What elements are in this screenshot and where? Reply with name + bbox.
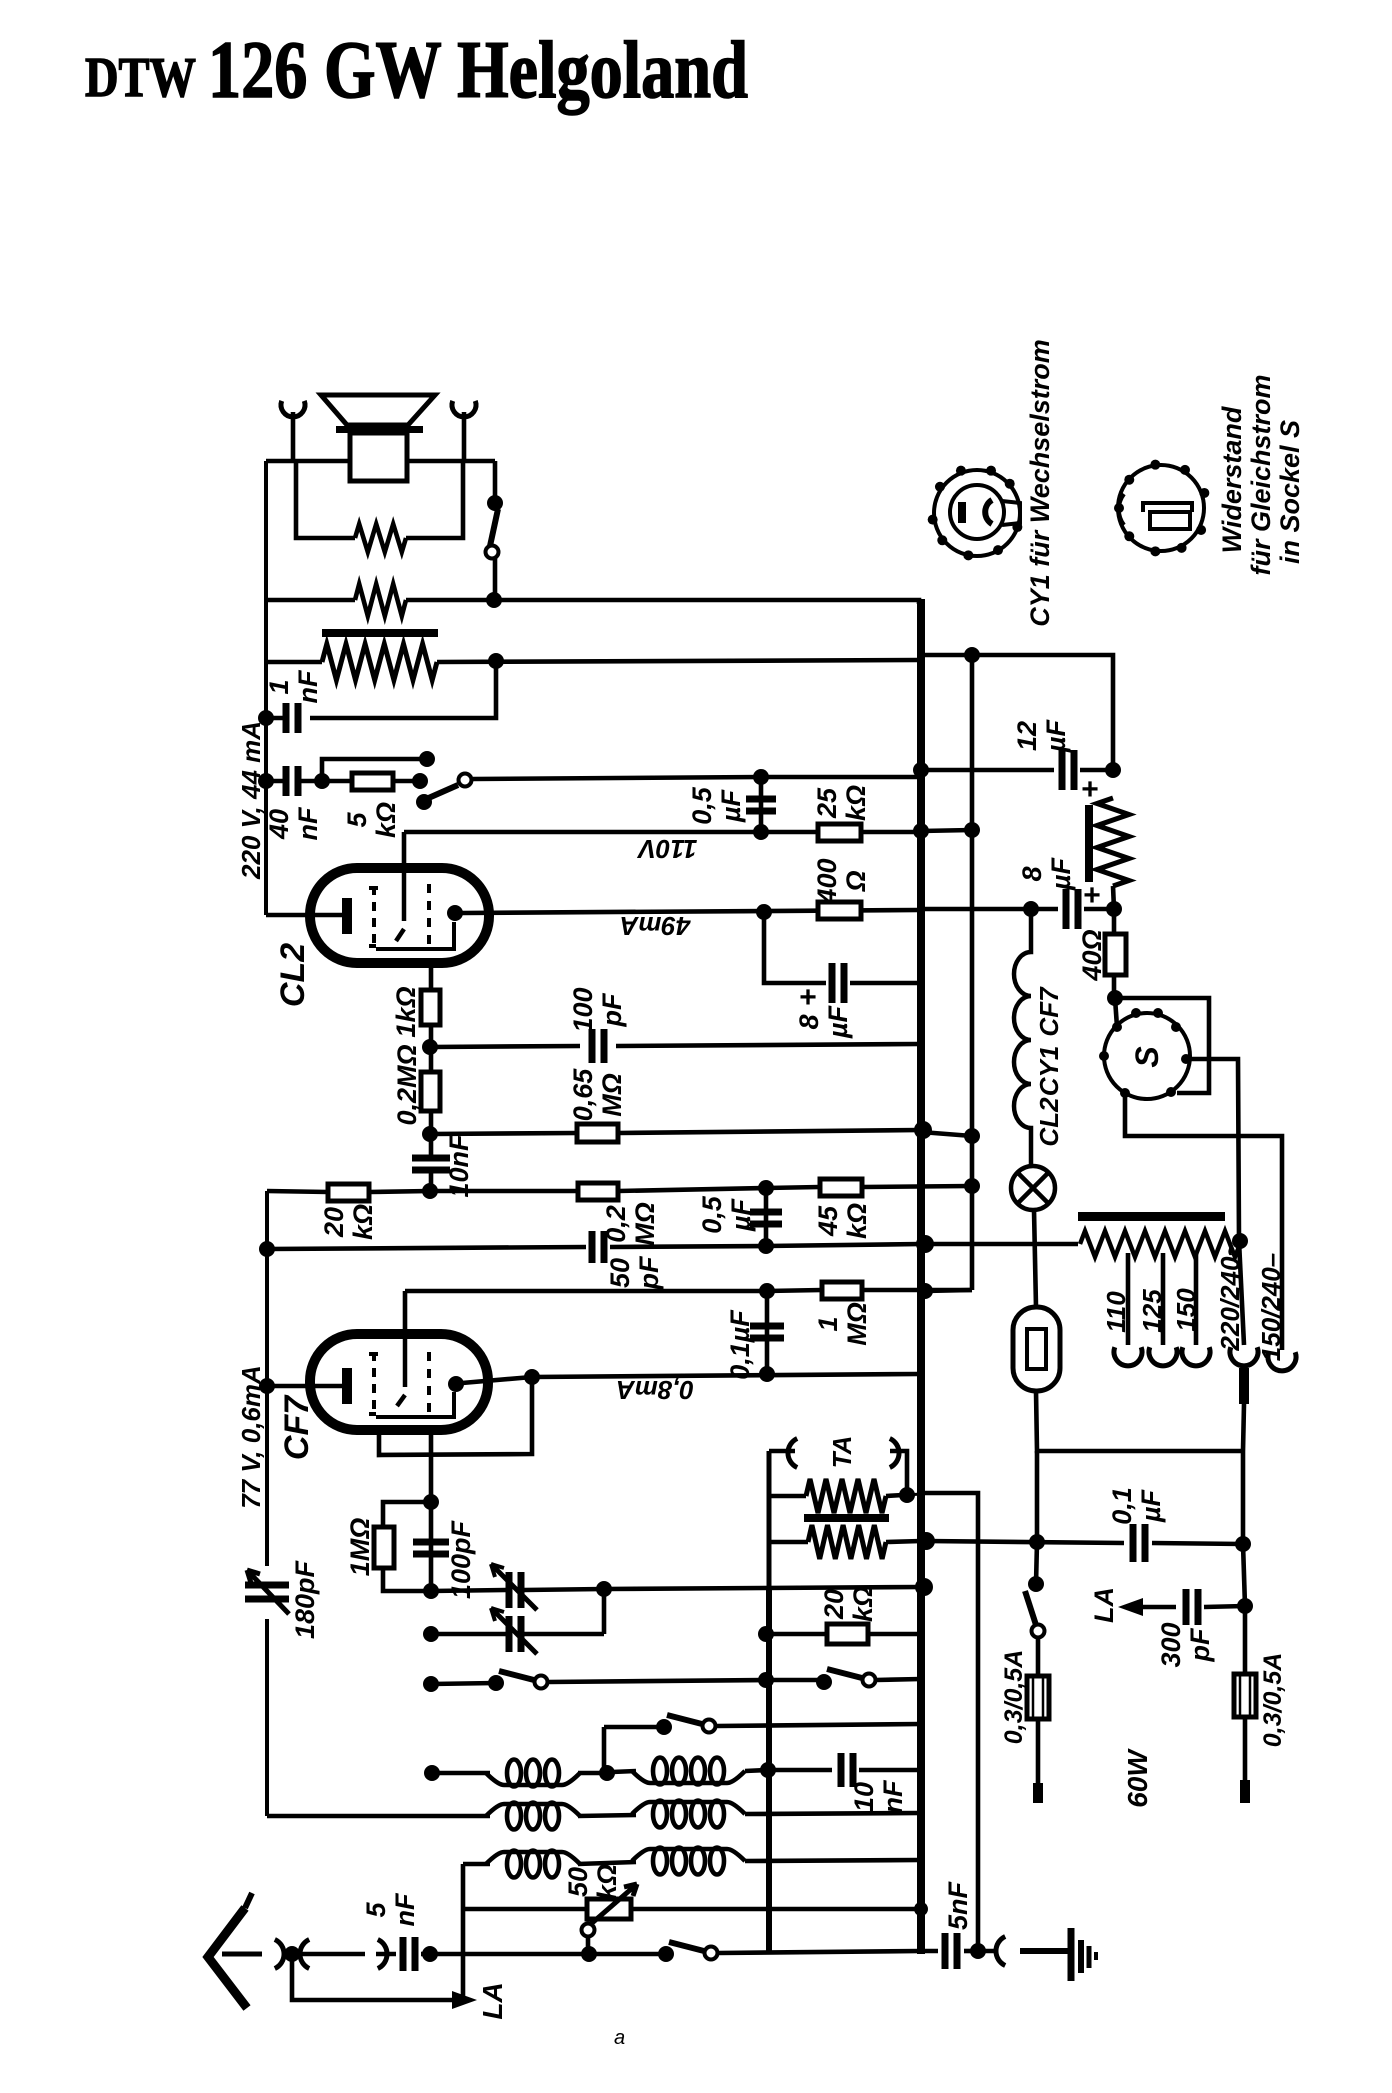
terminal antenna arc 2	[378, 1940, 387, 1969]
resistor 1 MΩ oscillator	[374, 1527, 394, 1568]
capacitor 5 nF antenna	[403, 1937, 415, 1971]
iron core mains dropper	[1078, 1212, 1225, 1221]
wire fuse chain mid	[1035, 1451, 1040, 1542]
capacitor 300 pF LA	[1186, 1589, 1198, 1625]
svg-text:in Sockel S: in Sockel S	[1275, 420, 1305, 564]
wire AF line right a	[926, 1541, 1124, 1543]
resistor 40 Ω	[1105, 934, 1126, 975]
inductor output transformer primary	[322, 644, 437, 680]
junction contact upper	[419, 751, 435, 767]
wire left rail upper (speaker loop left / CL2 grid feed)	[264, 461, 268, 915]
svg-text:DTW: DTW	[85, 47, 196, 109]
capacitor trimmer padding 2	[509, 1616, 521, 1652]
wire 12uF line left	[921, 768, 1054, 773]
capacitor 0,5 µF coupling	[746, 799, 776, 811]
label 5 nF earth	[943, 1880, 973, 1930]
svg-text:+: +	[1083, 879, 1101, 912]
wire coil line 2 from left rail	[267, 1814, 490, 1819]
wire TA top right	[890, 1451, 907, 1493]
junction trimmer vertical	[596, 1581, 612, 1597]
wire fuse chain to switch	[1036, 1542, 1037, 1584]
wire right vertical a	[1241, 1451, 1246, 1544]
svg-text:1kΩ: 1kΩ	[391, 986, 421, 1037]
svg-text:10nF: 10nF	[444, 1133, 474, 1198]
svg-text:µF: µF	[823, 1004, 853, 1039]
capacitor 8 µF cathode CL2 line	[832, 963, 844, 1003]
terminal stub mains right	[1240, 1780, 1250, 1803]
svg-text:77 V, 0,6mA: 77 V, 0,6mA	[236, 1365, 266, 1509]
wire TA zig1 right	[886, 1495, 903, 1496]
svg-text:0,3/0,5A: 0,3/0,5A	[1000, 1650, 1028, 1745]
wire 8uF psu line mid	[1022, 907, 1058, 912]
terminal 150/240	[1268, 1352, 1296, 1371]
junction rail AF line	[917, 1532, 935, 1550]
svg-text:+: +	[1081, 773, 1099, 806]
wire 8uF psu right	[1084, 907, 1114, 912]
switch contact output muting	[486, 546, 499, 559]
label 60W	[1122, 1748, 1153, 1808]
svg-text:45: 45	[813, 1205, 843, 1237]
wire S outer loop	[1115, 998, 1209, 1093]
tube CL2 cathode bar	[342, 898, 352, 934]
wire node to 0.2M horizontal	[430, 1189, 578, 1194]
switch contact tone selector	[459, 774, 472, 787]
svg-text:µF: µF	[1046, 856, 1076, 891]
resistor 0,2 MΩ coupling	[578, 1183, 618, 1200]
junction aux 0.65M ext	[964, 1128, 980, 1144]
svg-text:nF: nF	[293, 806, 323, 840]
svg-text:MΩ: MΩ	[630, 1202, 660, 1246]
svg-text:kΩ: kΩ	[842, 1203, 872, 1239]
wire dropper to 220 terminal	[1239, 1241, 1244, 1345]
junction bus bottom	[422, 1946, 438, 1962]
loudspeaker LS magnet body	[350, 433, 407, 481]
wire 100pF line to rail	[616, 1044, 919, 1046]
wire 0.65M extension	[921, 1132, 972, 1136]
wire lamp to fuse oval	[1034, 1210, 1036, 1307]
wire 300pF to vertical	[1204, 1606, 1245, 1607]
svg-text:Widerstand: Widerstand	[1217, 406, 1247, 553]
label CY1 fuer Wechselstrom	[1025, 339, 1055, 627]
junction right vertical AF	[1235, 1536, 1251, 1552]
wire bus 0.5uF section	[764, 1188, 769, 1246]
wire to 10nF	[429, 1134, 434, 1156]
wire coil1 lead	[432, 1771, 490, 1776]
wire rail to 5nF2	[921, 1949, 938, 1954]
ground symbol	[1068, 1928, 1075, 1981]
wire primary left lead	[266, 660, 322, 665]
svg-text:180pF: 180pF	[290, 1559, 320, 1639]
label 100 pF upper	[568, 987, 627, 1032]
svg-text:5: 5	[361, 1902, 391, 1918]
wire speaker loop bottom left	[266, 598, 355, 603]
svg-text:150: 150	[1171, 1288, 1201, 1332]
wire fuse right to stub	[1243, 1717, 1248, 1780]
svg-text:400: 400	[812, 858, 842, 904]
label 0,5 µF lower	[697, 1195, 756, 1234]
label 0,2MΩ vertical	[392, 1044, 422, 1125]
wire 40nF to node	[300, 779, 322, 784]
svg-text:125: 125	[1137, 1289, 1167, 1333]
svg-text:126 GW Helgoland: 126 GW Helgoland	[208, 24, 748, 115]
label 0,65 MΩ	[568, 1068, 627, 1122]
label 125	[1137, 1289, 1167, 1333]
wire 40ohm to S node	[1112, 975, 1117, 998]
wire to 40ohm	[1112, 909, 1117, 934]
loudspeaker LS cone	[321, 395, 435, 425]
junction osc switch pivot	[656, 1719, 672, 1735]
label 400 Ω	[812, 858, 871, 904]
svg-text:12: 12	[1012, 721, 1042, 751]
svg-text:LA: LA	[1089, 1587, 1119, 1623]
resistor speaker shunt	[355, 524, 406, 552]
junction 40nF / 5k	[314, 773, 330, 789]
terminal 220/240	[1230, 1347, 1258, 1366]
inductor L2 oscillator	[632, 1771, 745, 1783]
terminal tap	[1182, 1347, 1210, 1366]
junction fuse chain AF	[1029, 1534, 1045, 1550]
wire 40nF left	[266, 779, 284, 784]
wire between coils 1	[578, 1771, 602, 1776]
wire 50pF line left	[267, 1247, 586, 1249]
label plus 12uF	[1081, 773, 1099, 806]
svg-text:nF: nF	[878, 1779, 908, 1813]
label 10 nF padder	[849, 1779, 908, 1813]
wire bottom line a	[430, 1952, 589, 1957]
svg-text:0,5: 0,5	[697, 1195, 727, 1234]
svg-text:kΩ: kΩ	[848, 1586, 878, 1622]
wire antenna lead	[222, 1952, 262, 1957]
label TA	[827, 1436, 857, 1469]
svg-text:0,3/0,5A: 0,3/0,5A	[1259, 1653, 1287, 1748]
junction aux 110V ext	[964, 822, 980, 838]
wire S to 150V terminal	[1125, 1093, 1282, 1350]
wire cathode 100pF section	[429, 1502, 434, 1591]
wire 10nF to rail	[859, 1768, 921, 1773]
wire upper bypass to contact	[322, 759, 427, 781]
wire pot line left	[463, 1907, 587, 1912]
wire 20k2 left	[766, 1632, 827, 1637]
tube CL2 envelope	[310, 868, 489, 963]
wire to 5nF	[376, 1952, 396, 1957]
junction switch pivot speaker	[487, 495, 503, 511]
wire TA loop left	[767, 1451, 772, 1587]
svg-text:20: 20	[319, 1207, 349, 1238]
junction mains switch pivot	[1028, 1576, 1044, 1592]
wire 0.5uF branch	[759, 777, 764, 832]
wire dropper tap 1128	[1126, 1253, 1131, 1345]
wire switch to bottom line	[493, 558, 498, 600]
svg-text:150/240–: 150/240–	[1256, 1253, 1286, 1361]
fuse oval barretter	[1013, 1307, 1060, 1391]
svg-text:µF: µF	[1136, 1488, 1166, 1523]
switch S rotary	[1104, 1013, 1190, 1099]
wire 20k to node	[369, 1191, 430, 1192]
junction field bottom	[1106, 901, 1122, 917]
svg-text:+: +	[799, 981, 817, 1014]
svg-text:CY1 für Wechselstrom: CY1 für Wechselstrom	[1025, 339, 1055, 627]
svg-text:25: 25	[812, 787, 842, 819]
label heater CY1	[1034, 1046, 1064, 1097]
junction speaker bottom / switch	[486, 592, 502, 608]
wire right vertical b	[1243, 1544, 1245, 1606]
switch blade tone selector	[424, 785, 458, 800]
capacitor trimmer padding 1	[509, 1572, 521, 1608]
wire band line mid	[548, 1680, 766, 1682]
label 0,1 µF left	[725, 1309, 755, 1380]
inductor field coil / resistor smoothing	[1097, 798, 1129, 886]
svg-text:nF: nF	[390, 1892, 420, 1926]
wire dropper tap 1196	[1194, 1253, 1199, 1345]
svg-text:pF: pF	[634, 1255, 664, 1290]
wire speaker shunt loop right	[406, 461, 463, 538]
svg-text:pF: pF	[597, 992, 627, 1027]
wire CF7 anode line	[462, 1374, 919, 1383]
resistor 5 kΩ	[352, 773, 393, 790]
label 50 pF	[605, 1255, 664, 1290]
resistor TA volume upper	[806, 1479, 886, 1513]
label plus 8uF psu	[1083, 879, 1101, 912]
wire auxiliary vertical bus	[970, 655, 975, 1290]
label 45 kΩ	[813, 1203, 872, 1239]
wire to 5k resistor	[322, 779, 352, 784]
wire 20k line left	[267, 1191, 328, 1192]
label 77V 0,6mA	[236, 1365, 266, 1509]
junction rail 0.65M	[914, 1121, 932, 1139]
label 40 Ω	[1077, 929, 1107, 981]
junction aux 45k ext	[964, 1178, 980, 1194]
terminal stub 220	[1239, 1368, 1249, 1404]
svg-text:1: 1	[813, 1316, 843, 1331]
resistor 1 kΩ cathode	[421, 990, 440, 1025]
wire 0.65M line to rail	[618, 1130, 921, 1133]
wire trimmer2 right	[524, 1632, 604, 1637]
junction rail pot line	[914, 1902, 928, 1916]
wire band line to rail	[876, 1679, 921, 1680]
fuse 0,3/0,5 A right	[1234, 1674, 1256, 1717]
junction antenna node	[284, 1946, 300, 1962]
wire trimmer1 left	[431, 1590, 506, 1591]
switch contact mains	[1032, 1625, 1045, 1638]
junction cathode CF7 node	[423, 1494, 439, 1510]
label 20 kΩ	[319, 1204, 378, 1240]
junction left rail 50pF line	[259, 1241, 275, 1257]
junction LA right	[1237, 1598, 1253, 1614]
junction trimmer line 1	[423, 1583, 439, 1599]
junction earth node	[970, 1943, 986, 1959]
junction bus 50pF line	[758, 1238, 774, 1254]
wire 100pF line left	[430, 1046, 580, 1047]
svg-text:220 V, 44 mA: 220 V, 44 mA	[236, 721, 266, 880]
junction bus switch line left	[423, 1676, 439, 1692]
pot wiper contact	[582, 1924, 595, 1937]
wire to 1M	[767, 1290, 822, 1291]
wire TA top left	[769, 1449, 795, 1454]
junction bus detector line	[759, 1283, 775, 1299]
svg-text:TA: TA	[827, 1436, 857, 1469]
svg-text:nF: nF	[293, 669, 323, 703]
wire 1M branch bottom	[383, 1568, 431, 1591]
tube CL2 grid 3 dashes	[427, 884, 431, 950]
switch contact bottom	[705, 1947, 718, 1960]
wire pot line to rail	[631, 1907, 921, 1912]
wire 8uF branch CL2	[764, 912, 826, 983]
junction bus coil line 1	[424, 1765, 440, 1781]
wire band line to switch 2	[766, 1678, 824, 1683]
wire trimmer1 line to rail	[524, 1587, 921, 1590]
label 40 nF	[264, 806, 323, 840]
svg-text:kΩ: kΩ	[841, 785, 871, 821]
svg-text:LA: LA	[477, 1982, 508, 2019]
switch blade band 1	[499, 1671, 534, 1680]
capacitor 0,1 µF AF coupling	[750, 1326, 784, 1338]
label 25 kΩ	[812, 785, 871, 821]
label LA bottom	[477, 1982, 508, 2019]
tube CL2 grid 1 dashes	[372, 886, 376, 948]
label S	[1129, 1046, 1165, 1068]
svg-text:8: 8	[794, 1014, 824, 1029]
junction rail 12uF line	[913, 762, 929, 778]
wire AF line right b	[1152, 1543, 1243, 1544]
label 220/240~	[1215, 1241, 1245, 1351]
wire CL2 cathode down	[429, 963, 434, 990]
junction anode / 8uF	[756, 904, 772, 920]
inductor L1 oscillator	[486, 1773, 580, 1785]
wire osc switch line left	[604, 1725, 664, 1730]
wire primary to rail (anode supply)	[437, 660, 919, 662]
svg-text:5: 5	[342, 812, 372, 828]
wire CF7 cathode lead	[267, 1384, 342, 1389]
capacitor 12 µF smoothing	[1062, 750, 1074, 790]
switch contact band 1	[535, 1676, 548, 1689]
wire right supply rail (chassis bus)	[917, 599, 925, 1954]
socket CY1 view	[934, 470, 1020, 556]
junction left rail CF7 cathode	[259, 1378, 275, 1394]
junction grid node CL2	[422, 1183, 438, 1199]
junction field top	[1105, 762, 1121, 778]
junction band switch pivot 2	[816, 1674, 832, 1690]
label 180 pF	[290, 1559, 320, 1639]
svg-text:5nF: 5nF	[943, 1880, 973, 1930]
wire S node to pin	[1115, 998, 1117, 1027]
wire 0.2M to bus	[618, 1188, 766, 1191]
junction heater chain top	[1023, 901, 1039, 917]
label 0,2 MΩ horizontal	[601, 1202, 660, 1246]
label 100 pF lower	[446, 1519, 476, 1599]
wire 5k right lead	[393, 779, 418, 784]
junction coil line 1 mid	[599, 1765, 615, 1781]
inductor L3 antenna	[486, 1804, 580, 1816]
svg-text:Ω: Ω	[841, 870, 871, 892]
junction contact lower	[412, 773, 428, 789]
capacitor 50 pF	[592, 1231, 604, 1263]
wire CL2 anode line	[462, 910, 919, 913]
loudspeaker LS pole bar	[336, 426, 423, 433]
wire TA zig1 left	[769, 1494, 806, 1499]
svg-text:CL2: CL2	[274, 943, 312, 1007]
wire 1M line across rail	[862, 1288, 972, 1293]
label 1 MΩ	[813, 1302, 872, 1346]
resistor 20 kΩ screen	[328, 1184, 369, 1201]
socket Widerstand view	[1118, 465, 1204, 551]
terminal antenna jack left half	[275, 1940, 284, 1969]
wire coupling vertical down	[461, 1864, 466, 1999]
wire LA branch	[292, 1954, 455, 2000]
svg-text:110: 110	[1101, 1291, 1131, 1333]
wire between coils 3	[578, 1862, 636, 1864]
wire detector line left	[405, 1289, 767, 1294]
capacitor 100 pF CL2	[592, 1029, 604, 1063]
capacitor 180 pF tuning	[245, 1585, 289, 1599]
svg-text:0,1: 0,1	[1107, 1487, 1137, 1525]
wire CF7 cathode down	[429, 1430, 434, 1502]
wire tap to rail	[907, 1494, 921, 1495]
resistor 25 kΩ	[818, 824, 861, 841]
svg-text:49mA: 49mA	[620, 911, 692, 941]
wire 0.65M line left	[430, 1133, 577, 1134]
wire fuse oval to right vertical	[1036, 1391, 1243, 1451]
label 1MΩ vertical	[345, 1518, 375, 1577]
label plus 8uF	[799, 981, 817, 1014]
potentiometer arrow 50k	[584, 1884, 637, 1930]
svg-text:8: 8	[1017, 866, 1047, 881]
junction screen branch	[524, 1369, 540, 1385]
iron core output transformer	[322, 629, 438, 637]
wire trimmer2 left	[431, 1632, 506, 1637]
wire coil line1 to 10nF	[768, 1768, 832, 1773]
label fuse right	[1259, 1653, 1287, 1748]
tube CL2 anode dot	[447, 905, 463, 921]
svg-text:CF7: CF7	[278, 1394, 316, 1460]
svg-text:0,5: 0,5	[687, 786, 717, 825]
junction switch pivot tone	[416, 794, 432, 810]
label CF7	[278, 1394, 316, 1460]
svg-text:1: 1	[264, 679, 294, 694]
wire speaker left terminal lead	[291, 412, 296, 461]
wire 1nF to left rail	[266, 716, 284, 721]
svg-text:CL2: CL2	[1034, 1097, 1064, 1147]
junction top line vertical	[964, 647, 980, 663]
tube CF7 grid 2 dashes	[427, 1352, 431, 1418]
wire TA zig2 left	[769, 1540, 808, 1545]
junction bus coil line1	[760, 1762, 776, 1778]
wire trimmer vertical link	[602, 1589, 607, 1634]
junction 0.5uF top	[753, 769, 769, 785]
wire speaker right terminal lead	[462, 412, 467, 461]
resistor 0,2 MΩ vertical	[421, 1072, 440, 1111]
svg-text:40: 40	[264, 809, 294, 840]
terminal TA left	[788, 1439, 797, 1468]
junction dropper right	[1232, 1233, 1248, 1249]
resistor 45 kΩ	[820, 1179, 862, 1196]
label 20 kΩ AF	[819, 1586, 878, 1622]
capacitor 8 µF psu	[1066, 889, 1078, 929]
wire 110V extension	[921, 830, 972, 831]
wire secondary return to rail	[406, 600, 919, 604]
junction TA tap	[899, 1487, 915, 1503]
label 0,1 µF mains	[1107, 1487, 1166, 1525]
junction band switch pivot 1	[488, 1675, 504, 1691]
wire antenna series	[300, 1952, 365, 1957]
terminal tap	[1149, 1347, 1177, 1366]
terminal antenna jack right half	[300, 1940, 309, 1969]
wire bus 0.1uF section	[765, 1291, 770, 1374]
wire zig2 to rail	[886, 1541, 921, 1542]
tube CF7 envelope	[310, 1334, 488, 1430]
label 1 nF	[264, 669, 323, 703]
wire aux bottom to rail	[925, 1290, 972, 1291]
junction wiper bottom	[581, 1946, 597, 1962]
